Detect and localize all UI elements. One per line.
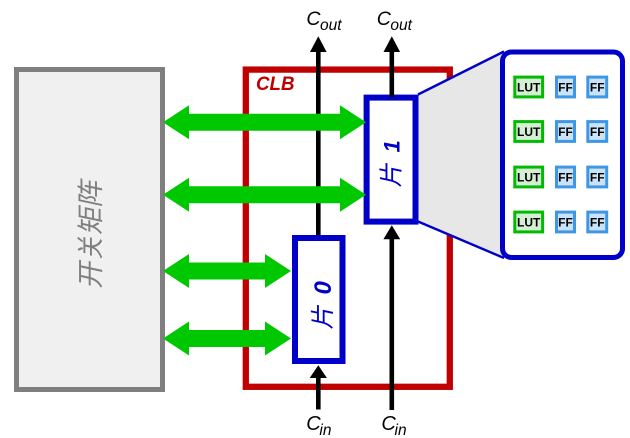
svg-text:FF: FF: [590, 216, 605, 230]
svg-text:1: 1: [380, 140, 405, 152]
svg-text:LUT: LUT: [517, 171, 541, 185]
CLB box: [246, 70, 450, 387]
LUT row 1: [515, 77, 543, 97]
svg-text:FF: FF: [590, 125, 605, 139]
svg-text:out: out: [390, 17, 412, 34]
FF row 2 b: [588, 122, 607, 142]
svg-text:in: in: [395, 422, 407, 438]
LUT row 3: [515, 167, 543, 187]
FF row 3 a: [557, 167, 575, 187]
label Cout left: [306, 8, 342, 34]
svg-text:FF: FF: [558, 216, 573, 230]
svg-text:out: out: [320, 17, 342, 34]
svg-text:LUT: LUT: [517, 81, 541, 95]
interconnect arrow 1: [163, 105, 366, 139]
expansion trapezoid: [418, 52, 504, 259]
carry line B lower (Cin into slice1): [383, 225, 400, 410]
label Cin left: [306, 413, 331, 438]
svg-text:LUT: LUT: [517, 125, 541, 139]
LUT and FF grid: [515, 77, 607, 232]
interconnect arrow 4: [163, 322, 291, 356]
svg-text:LUT: LUT: [517, 216, 541, 230]
svg-text:CLB: CLB: [256, 74, 295, 95]
FF row 3 b: [588, 167, 607, 187]
svg-text:FF: FF: [590, 171, 605, 185]
slice 0 box 片0: [295, 238, 343, 361]
svg-text:FF: FF: [590, 81, 605, 95]
slice detail box: [503, 52, 623, 258]
carry line A upper (Cout of slice0 chain): [310, 36, 327, 235]
label Cin right: [381, 413, 406, 438]
svg-text:FF: FF: [558, 81, 573, 95]
switch matrix box 开关矩阵: [17, 70, 163, 390]
svg-text:0: 0: [310, 281, 337, 295]
interconnect arrow 2: [163, 178, 366, 212]
LUT row 2: [515, 122, 543, 142]
label Cout right: [377, 8, 413, 34]
carry line A lower (Cin into slice0): [310, 365, 327, 409]
slice 1 box 片1: [367, 98, 416, 222]
FF row 4 b: [588, 212, 607, 232]
LUT row 4: [515, 212, 543, 232]
carry line B upper (Cout of slice1): [384, 36, 401, 97]
FF row 1 b: [588, 77, 607, 97]
interconnect arrow 3: [163, 254, 291, 288]
FF row 4 a: [557, 212, 575, 232]
FF row 1 a: [557, 77, 575, 97]
FF row 2 a: [557, 122, 575, 142]
svg-text:FF: FF: [558, 125, 573, 139]
svg-text:FF: FF: [558, 171, 573, 185]
svg-text:in: in: [319, 422, 331, 438]
